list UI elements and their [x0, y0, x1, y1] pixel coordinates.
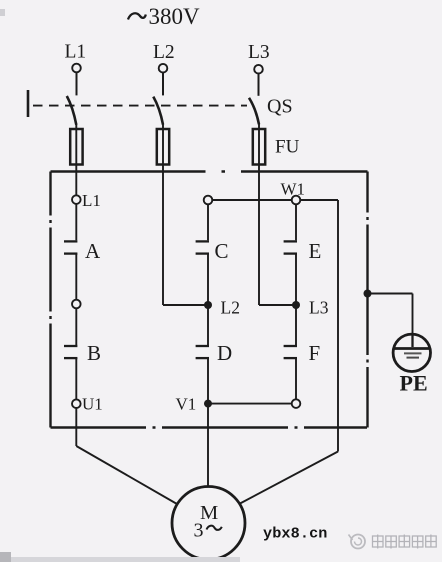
svg-text:W1: W1 — [281, 180, 306, 199]
terminal U1 — [72, 399, 81, 408]
svg-text:U1: U1 — [82, 395, 103, 414]
svg-text:D: D — [217, 341, 232, 365]
terminal below F — [292, 399, 301, 408]
svg-text:B: B — [87, 341, 101, 365]
scan smudge top left — [0, 9, 5, 16]
switch QS blade pole 1 — [67, 96, 77, 125]
wire V1 to F bottom terminal — [208, 403, 292, 405]
terminal L1 — [72, 64, 81, 73]
svg-text:QS: QS — [267, 96, 293, 118]
wire V1 to motor — [207, 404, 209, 487]
scan smudge bottom — [0, 552, 240, 562]
svg-text:L1: L1 — [65, 42, 87, 63]
contact C — [196, 241, 209, 253]
svg-text:C: C — [215, 239, 229, 263]
switch QS linkage bar — [27, 90, 30, 117]
motor M — [172, 487, 245, 560]
terminal W1 — [292, 196, 301, 205]
svg-text:L2: L2 — [153, 42, 175, 63]
svg-text:L3: L3 — [309, 298, 329, 318]
enclosure box top edge — [51, 170, 368, 172]
svg-text:F: F — [309, 341, 321, 365]
junction node V1 — [204, 400, 212, 408]
wire contact D to node V1 — [207, 358, 209, 404]
wire L1 drop to switch — [76, 73, 78, 96]
wire mid terminal to contact B — [75, 308, 77, 345]
contact A — [64, 241, 77, 253]
switch QS blade pole 2 — [153, 97, 163, 125]
svg-text:L2: L2 — [221, 298, 240, 318]
svg-text:A: A — [85, 239, 101, 263]
svg-text:PE: PE — [400, 371, 428, 396]
junction node L3 — [292, 301, 300, 309]
fuse FU pole 1 — [70, 124, 82, 195]
wire fuse2 branch to node L2 — [163, 304, 208, 306]
enclosure box right edge — [366, 172, 368, 428]
wire PE tap to earth — [368, 294, 413, 336]
wire L3 drop to switch — [258, 74, 260, 96]
terminal between A and B — [72, 300, 81, 309]
wire node L2 to contact D — [207, 305, 209, 345]
junction node L2 — [204, 301, 212, 309]
svg-text:L1: L1 — [82, 191, 101, 210]
wire U1 to motor — [76, 408, 177, 504]
svg-text:E: E — [309, 239, 322, 263]
wire W1 to contact E — [295, 204, 297, 240]
label 3~ — [194, 519, 222, 541]
svg-text:ybx8.cn: ybx8.cn — [263, 525, 328, 543]
svg-text:380V: 380V — [149, 4, 201, 29]
wire contact B to U1 — [75, 358, 77, 399]
svg-text:FU: FU — [275, 137, 300, 158]
wire contact E to node L3 — [295, 254, 297, 305]
watermark text blocks — [373, 535, 437, 549]
wire C top to contact C — [207, 204, 209, 240]
contact B — [64, 346, 77, 358]
wire fuse3 branch to node L3 — [259, 304, 296, 306]
wire contact F to bottom terminal — [295, 358, 297, 399]
switch QS linkage dashed line — [33, 105, 247, 107]
wire contact A to mid terminal — [75, 254, 77, 300]
junction node PE tap — [364, 290, 372, 298]
svg-text:L3: L3 — [248, 42, 270, 63]
wire W1 to right drop — [240, 200, 338, 504]
terminal L2 — [159, 64, 168, 73]
terminal L3 — [254, 65, 263, 74]
node ~380V supply label — [128, 4, 200, 29]
contact F — [284, 346, 297, 358]
earth electrode PE — [393, 334, 430, 371]
terminal top of contact C — [204, 196, 213, 205]
enclosure box bottom edge — [51, 426, 368, 428]
watermark logo icon — [349, 535, 366, 549]
wire C top to W1 — [212, 199, 291, 201]
contact E — [284, 241, 297, 253]
terminal L1 inner — [72, 195, 81, 204]
contact D — [196, 346, 209, 358]
svg-text:V1: V1 — [176, 395, 197, 414]
enclosure box left edge — [49, 172, 51, 428]
wire L2 drop to switch — [162, 73, 164, 96]
wire node L3 to contact F — [295, 305, 297, 345]
fuse FU pole 2 — [157, 124, 169, 305]
wire L1 to contact A — [75, 204, 77, 240]
svg-text:3: 3 — [194, 519, 204, 541]
fuse FU pole 3 — [253, 124, 265, 305]
wire contact C to node L2 — [207, 254, 209, 305]
switch QS blade pole 3 — [249, 98, 259, 125]
